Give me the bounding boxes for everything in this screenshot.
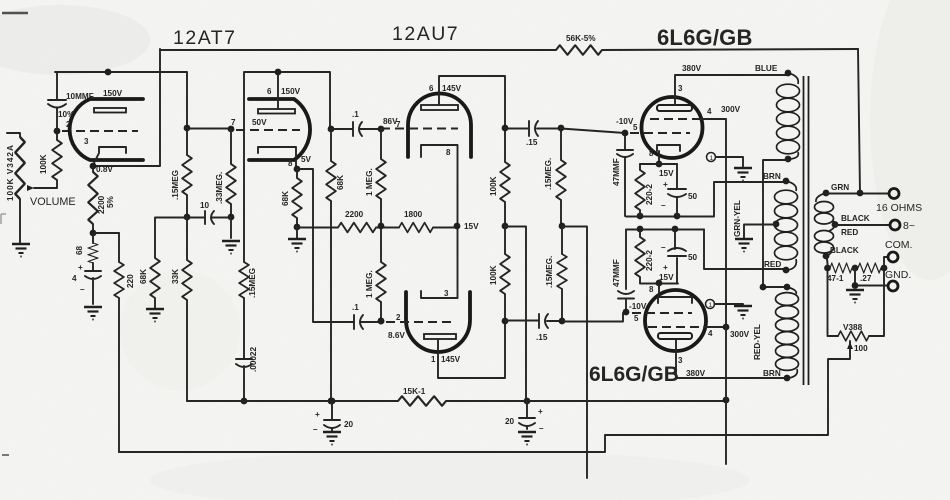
node below 2200 xyxy=(90,230,97,237)
node BLUE xyxy=(785,70,792,77)
node RED xyxy=(783,267,790,274)
grid dashes V2b xyxy=(386,321,455,323)
capacitor .27 (zigzag style per scan) xyxy=(858,263,881,273)
resistor 100K grid V1 xyxy=(34,134,57,188)
resistor .15MEG grid lower xyxy=(561,227,563,320)
wire secondary low end down xyxy=(826,256,828,336)
cathode V3 xyxy=(657,145,680,163)
wire B+ jog to bus xyxy=(505,227,526,402)
terminal COM xyxy=(884,257,887,268)
capacitor .1 coupling to V2b xyxy=(353,315,355,329)
capacitor .1 coupling to V2a xyxy=(328,126,335,133)
pin1 internal shield bottom xyxy=(706,300,715,309)
terminal 8 xyxy=(890,220,900,230)
potentiometer VOLUME 100K V342A xyxy=(7,133,20,243)
control grid V4 dashes xyxy=(632,312,692,314)
resistor 2200 5% cathode V1 xyxy=(92,167,94,233)
resistor 220-2 bottom xyxy=(639,230,641,283)
plate V2b xyxy=(424,334,456,339)
pin1 internal shield top xyxy=(707,153,716,162)
wire bottom feedback rail xyxy=(119,341,850,452)
resistor 68K decoupling xyxy=(155,218,187,309)
node decoupling xyxy=(184,214,191,221)
capacitor 50 electrolytic bottom xyxy=(675,229,677,283)
wire grid to top 6L6 xyxy=(561,129,625,134)
terminal GND xyxy=(888,281,898,291)
resistor 1800 horizontal xyxy=(399,223,433,233)
resistor 100K plate load V2b xyxy=(504,226,506,320)
node BLACK bottom xyxy=(823,253,830,260)
grid dashes V2a xyxy=(381,128,458,130)
wire bias feed going down xyxy=(562,227,587,479)
primary winding section 1 xyxy=(777,73,800,159)
wire 8 ohm tap xyxy=(835,224,890,226)
wire top feedback line with 56K xyxy=(160,49,858,50)
tube V1 envelope (12AT7 a) xyxy=(70,99,143,160)
resistor 1 MEG upper xyxy=(380,129,382,226)
resistor .33MEG xyxy=(230,129,232,217)
control grid V3 xyxy=(622,130,629,137)
plate V2a xyxy=(421,105,458,110)
resistor .15MEG xyxy=(243,72,245,358)
capacitor 10 xyxy=(187,217,231,219)
primary winding section 2 xyxy=(775,181,798,270)
tube V4 envelope bottom 6L6 xyxy=(645,290,706,351)
resistor 15K-1 xyxy=(398,396,446,406)
wire B+ bus xyxy=(187,400,726,402)
wire mid node to GND terminal xyxy=(855,268,887,286)
tube V2b envelope 12AU7 lower xyxy=(406,292,470,352)
node grid V1 pin2 xyxy=(54,128,61,135)
wire .27 node down to V388 right xyxy=(869,268,884,336)
terminal 16 ohms xyxy=(889,189,899,199)
capacitor .00022 xyxy=(236,359,252,401)
resistor 68 xyxy=(92,234,94,270)
wire cathode rail xyxy=(640,163,677,165)
wire rc rails to winding taps xyxy=(704,230,786,270)
wire grid to bottom 6L6 xyxy=(562,313,626,322)
resistor 1 MEG lower xyxy=(380,228,382,321)
wire grid dashes V1 xyxy=(62,130,138,132)
capacitor 4 electrolytic xyxy=(85,271,101,304)
plate V1 xyxy=(94,108,126,113)
ground .33MEG xyxy=(230,217,232,238)
resistor 220 feedback xyxy=(118,233,120,452)
node BRN bottom xyxy=(784,375,791,382)
cathode V1b xyxy=(258,147,296,167)
node bus right end xyxy=(723,397,730,404)
potentiometer V388 100 xyxy=(838,331,869,341)
resistor 33K to B+ xyxy=(186,217,188,401)
node GRN-YEL tap xyxy=(773,221,780,228)
wire screens 300V line xyxy=(725,119,727,400)
resistor 68K plate load V1b xyxy=(330,129,332,401)
cathode V1 xyxy=(93,147,126,165)
resistor 220-2 top xyxy=(639,164,641,216)
tube V1b envelope xyxy=(249,99,310,160)
capacitor 10MMF plate-to-grid xyxy=(56,72,58,130)
plate V3 xyxy=(657,105,692,111)
ground pot xyxy=(12,244,30,257)
cathode V2a + shared cathode line xyxy=(421,145,458,298)
wire to grid V1b xyxy=(187,128,231,130)
node primary tap S1 bottom xyxy=(785,156,792,163)
node BRN top xyxy=(783,178,790,185)
screen grid V4 xyxy=(648,326,704,328)
node grid V2a 86V xyxy=(378,126,385,133)
core xyxy=(804,76,809,385)
node GRN xyxy=(823,190,830,197)
capacitor 47MMF bottom xyxy=(625,230,627,289)
secondary winding xyxy=(815,193,836,256)
wire bottom rc rail xyxy=(640,283,678,285)
resistor 68K cathode V1b xyxy=(296,169,298,227)
wire V1b plate rail xyxy=(245,72,330,129)
capacitor 20 electrolytic first xyxy=(329,398,336,405)
plate V1b xyxy=(258,109,295,114)
node plate V1 xyxy=(105,69,112,76)
resistor 2200 horizontal xyxy=(338,223,376,233)
resistor 56K-5% xyxy=(556,45,602,55)
primary winding section 3 xyxy=(776,287,799,378)
wire bias rail 2200/1800 xyxy=(297,227,457,229)
capacitor .15 lower coupling xyxy=(505,320,562,323)
scan texture blotches xyxy=(0,5,150,75)
resistor .15MEG plate-coupling xyxy=(186,128,188,217)
cathode rail bottom tube upper xyxy=(626,229,704,231)
resistor 47-1 xyxy=(830,263,852,273)
capacitor 47MMF top xyxy=(624,136,626,149)
ground 4uF xyxy=(84,307,102,320)
wire V1 plate rail xyxy=(55,72,187,128)
screen grid V3 dashes xyxy=(650,118,700,120)
node 8 ohm tap xyxy=(832,221,839,228)
tube V2a envelope 12AU7 upper xyxy=(408,94,471,158)
resistor 100K plate load V2a xyxy=(504,128,506,226)
misc scan mark top-left xyxy=(2,12,28,15)
wire feedback drop to V1 cathode xyxy=(93,49,160,166)
plate V4 xyxy=(658,333,692,339)
capacitor .15 upper coupling xyxy=(505,128,561,130)
resistor .15MEG grid upper xyxy=(560,128,562,226)
cathode V2b xyxy=(421,291,458,298)
wire link S1 to S3 xyxy=(763,160,788,287)
capacitor 20 electrolytic second xyxy=(526,401,528,429)
grid dashes V1b xyxy=(236,129,300,131)
capacitor 50 electrolytic top xyxy=(676,164,678,216)
wire 16 ohms tap xyxy=(826,193,889,195)
cathode rail top tube xyxy=(626,182,786,217)
node cathode V1 xyxy=(90,163,97,170)
cathode V4 xyxy=(658,283,692,303)
tube V3 envelope top 6L6 xyxy=(642,97,703,158)
wire feedback from 56K xyxy=(858,49,860,193)
wire cathode V1b to V2b grid xyxy=(297,169,353,322)
